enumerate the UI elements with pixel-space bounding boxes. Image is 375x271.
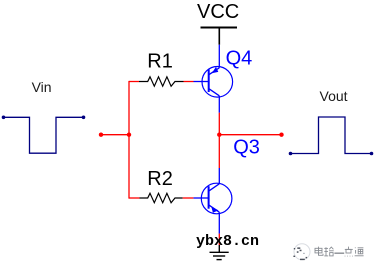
power port VCC bbox=[197, 1, 239, 45]
transistor Q3 (NPN) bbox=[193, 168, 232, 234]
wire R2 to Q3 base bbox=[183, 197, 194, 199]
watermark text (vector strokes for CJK) bbox=[315, 247, 364, 257]
wire R1 to Q4 base bbox=[184, 81, 194, 83]
wire Q4 emitter to Q3 collector bbox=[218, 113, 220, 168]
svg-text:VCC: VCC bbox=[197, 1, 239, 23]
wire Q3 emitter to ground bbox=[218, 234, 220, 245]
char tong through bbox=[355, 247, 364, 255]
wire bus to R1 bbox=[129, 81, 139, 83]
resistor R1 bbox=[139, 77, 184, 86]
svg-text:Q3: Q3 bbox=[233, 136, 260, 158]
node output endpoint bbox=[279, 133, 283, 137]
wire output stub bbox=[219, 134, 281, 136]
node Vout left dot bbox=[289, 152, 293, 156]
junction input node bbox=[127, 133, 131, 137]
watermark logo circle bbox=[293, 244, 310, 260]
node Vin right dot bbox=[82, 116, 86, 120]
node Vin left dot bbox=[2, 116, 6, 120]
transistor Q4 (PNP) bbox=[194, 67, 233, 113]
svg-text:Q4: Q4 bbox=[226, 48, 253, 70]
char dian electric bbox=[315, 247, 323, 256]
wire VCC to Q4 emitter bbox=[218, 45, 220, 68]
svg-text:R1: R1 bbox=[147, 51, 173, 73]
wire bus to R2 bbox=[129, 197, 140, 199]
node Vout right dot bbox=[370, 152, 374, 156]
waveform Vout bbox=[291, 117, 372, 154]
char yi one bbox=[334, 252, 344, 254]
wire input bus vertical bbox=[128, 81, 130, 199]
char lu road bbox=[324, 247, 333, 256]
ground bbox=[210, 245, 229, 260]
wire input stub bbox=[101, 134, 129, 136]
resistor R2 bbox=[140, 193, 183, 202]
node input endpoint bbox=[99, 133, 103, 137]
svg-text:R2: R2 bbox=[147, 168, 173, 190]
svg-text:Vout: Vout bbox=[320, 88, 348, 104]
svg-text:ybx8.cn: ybx8.cn bbox=[196, 233, 259, 250]
waveform Vin bbox=[4, 117, 84, 153]
svg-text:Vin: Vin bbox=[32, 79, 52, 95]
char dian point bbox=[345, 247, 353, 257]
junction output node bbox=[217, 133, 221, 137]
